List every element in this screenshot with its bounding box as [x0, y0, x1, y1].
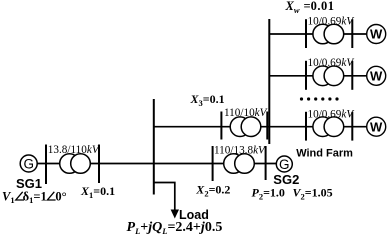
svg-text:PL+jQL=2.4+j0.5: PL+jQL=2.4+j0.5: [127, 220, 223, 236]
wire main bus to SG2 (row X2): [154, 163, 277, 165]
transformer wind branch2 10/0.69kV: [313, 66, 344, 86]
transformer T1 13.8/110kV: [60, 154, 91, 174]
wire SG1 to main bus (row X1): [37, 163, 154, 165]
bus tick wind branch2 right: [351, 61, 353, 90]
load tap wire: [154, 183, 175, 212]
wind generator W2: [367, 66, 386, 85]
svg-text:X1=0.1: X1=0.1: [80, 184, 115, 200]
transformer wind branch1 10/0.69kV: [313, 24, 344, 44]
angle symbol 2: [47, 192, 55, 200]
wire main bus to wind bus (row X3) and wind branch 3: [154, 126, 367, 128]
svg-text:10/0.69kV: 10/0.69kV: [308, 16, 355, 28]
svg-text:W: W: [370, 119, 383, 134]
bus tick T1 right: [98, 145, 100, 184]
generator SG1 symbol: [20, 155, 37, 172]
generator SG2 symbol: [276, 156, 292, 172]
wind farm collection bus: [268, 19, 270, 144]
svg-text:Wind Farm: Wind Farm: [296, 148, 353, 160]
label V1 angle d1 = 1 angle 0: [2, 190, 67, 206]
transformer T3 110/10kV: [230, 117, 261, 137]
wire wind branch 2: [269, 75, 367, 77]
bus tick wind branch1 right: [351, 19, 353, 48]
bus tick T3 left: [220, 112, 222, 140]
bus tick wind branch2 left: [305, 61, 307, 90]
main 110kV bus: [153, 99, 155, 195]
bus tick wind branch1 left: [305, 19, 307, 48]
transformer T2 110/13.8kV: [224, 154, 255, 174]
load arrow head: [171, 210, 179, 219]
svg-text:P2=1.0: P2=1.0: [252, 186, 285, 202]
svg-text:G: G: [279, 157, 290, 172]
svg-text:V2=1.05: V2=1.05: [293, 186, 333, 202]
wind generator W1: [367, 25, 386, 44]
wire wind branch 1: [269, 33, 367, 35]
angle symbol 1: [16, 192, 24, 200]
svg-text:X3=0.1: X3=0.1: [190, 92, 225, 108]
svg-text:13.8/110kV: 13.8/110kV: [48, 144, 100, 156]
svg-text:10/0.69kV: 10/0.69kV: [308, 57, 355, 69]
svg-text:Xw=0.01: Xw=0.01: [285, 0, 335, 15]
svg-text:W: W: [370, 68, 383, 83]
svg-text:10/0.69kV: 10/0.69kV: [308, 108, 355, 120]
transformer wind branch3 10/0.69kV: [313, 117, 344, 137]
bus tick T1 left: [45, 145, 47, 185]
bus tick wind branch3 left: [305, 112, 307, 141]
svg-text:110/10kV: 110/10kV: [224, 107, 268, 119]
bus tick T3 right: [266, 112, 268, 140]
wind generator W3: [367, 117, 386, 136]
bus tick T2 left: [212, 146, 214, 181]
ellipsis dots (more branches): [300, 97, 339, 100]
bus tick wind branch3 right: [351, 112, 353, 141]
svg-text:X2=0.2: X2=0.2: [195, 183, 230, 199]
svg-text:110/13.8kV: 110/13.8kV: [214, 144, 266, 156]
svg-text:W: W: [370, 27, 383, 42]
svg-text:G: G: [23, 156, 34, 171]
bus tick T2 right: [265, 146, 267, 180]
